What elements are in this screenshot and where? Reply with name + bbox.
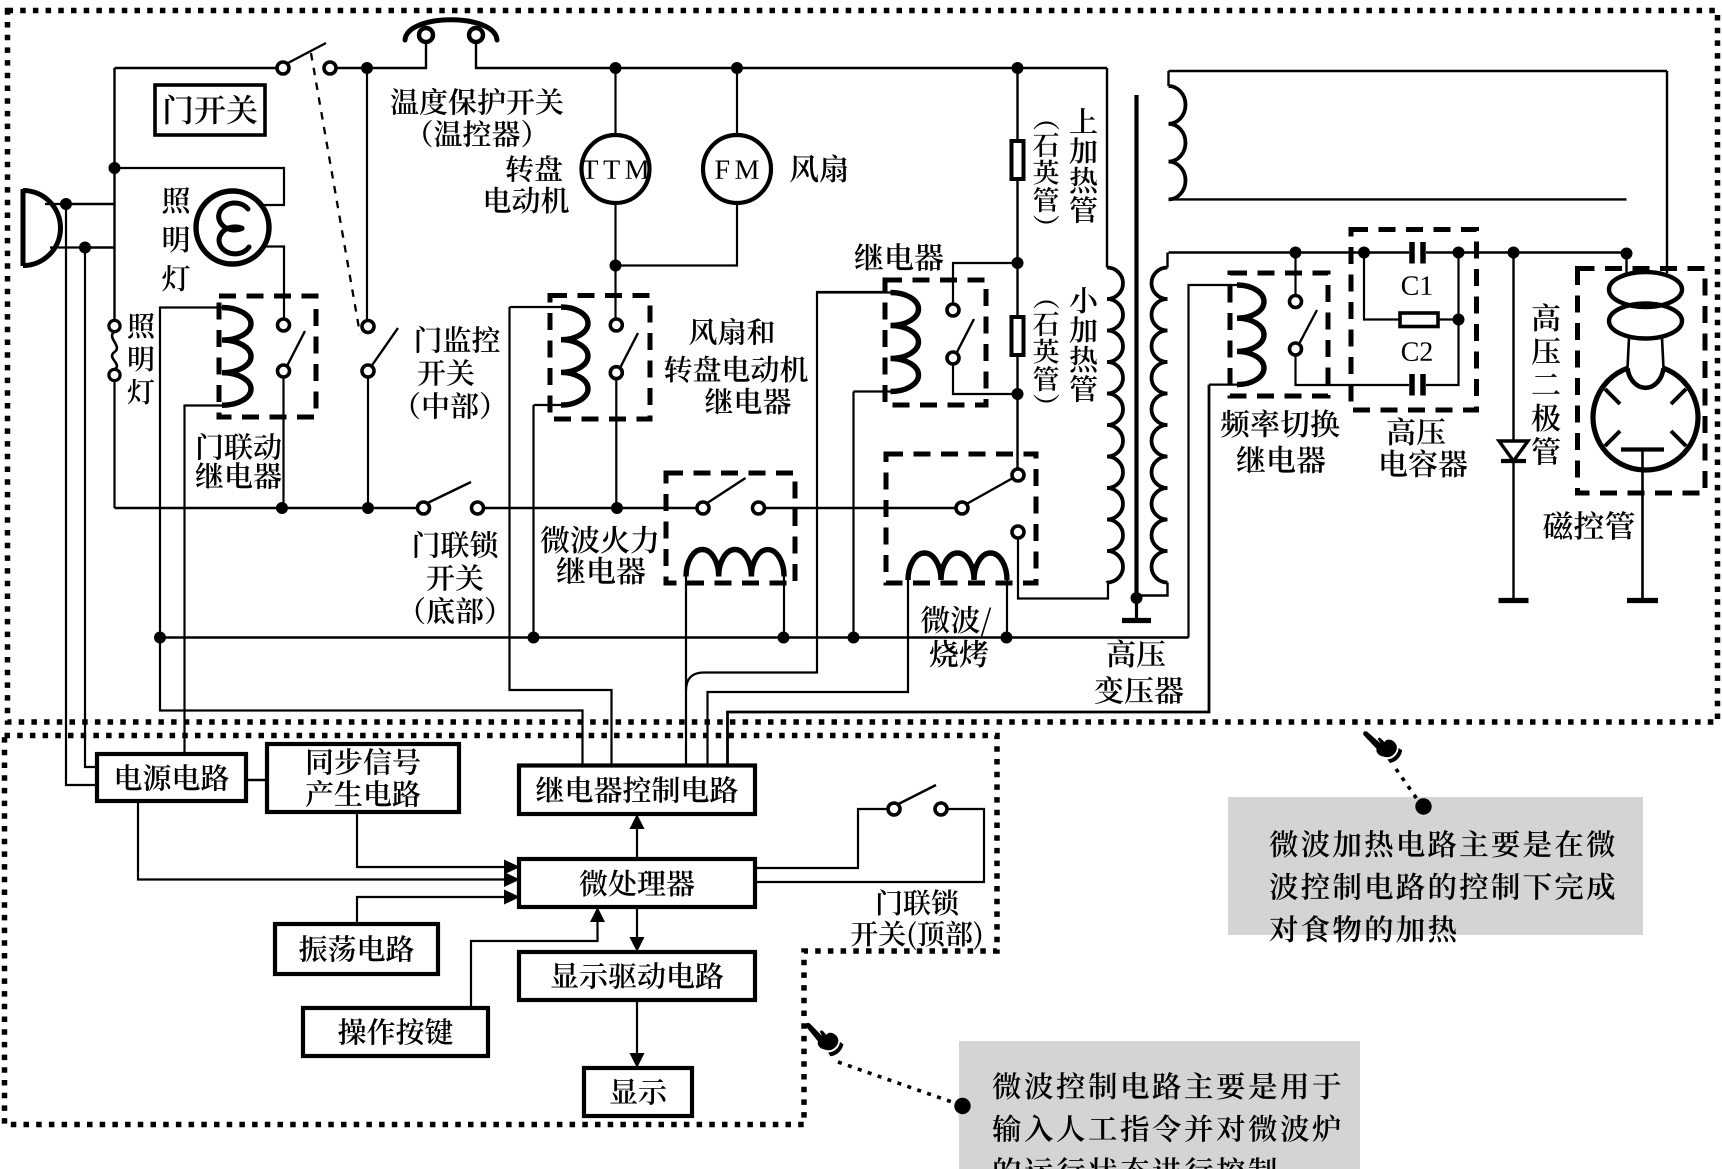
capacitor C1: [1412, 242, 1423, 264]
junction on rail at door-monitor branch: [361, 62, 373, 74]
label: microprocessor: [580, 870, 695, 897]
label: turntable motor line1: [506, 155, 562, 182]
label: door interlock relay line1: [198, 433, 281, 460]
door interlock relay dashed box: [219, 296, 316, 417]
label: sync signal line2: [306, 780, 421, 807]
label: relay control circuit: [536, 776, 738, 803]
HV capacitor dashed box: [1351, 230, 1477, 411]
wire+arrow: sync signal to microprocessor: [357, 812, 520, 875]
pointer hand to heating note: [1360, 722, 1405, 766]
junction coil/bus: [778, 632, 790, 644]
microwave power relay coil: [686, 549, 784, 576]
wire: door relay coil bottom lead drop to power circuit: [183, 405, 185, 756]
label: upper heater tube vertical: [1070, 108, 1097, 223]
small-heater relay dashed box: [885, 280, 986, 405]
wire: freq relay coil bottom drop to relay control: [728, 385, 1210, 766]
microwave/grill relay dashed box: [886, 454, 1036, 583]
junction at x85 on plug bottom lead: [79, 242, 91, 254]
wire: oven lamp top terminal feed: [115, 168, 285, 205]
dotted leader to heating note: [1396, 769, 1417, 799]
operation keys box: [303, 1008, 488, 1056]
label: top interlock switch line1: [878, 889, 958, 915]
label: display driver circuit: [551, 962, 723, 989]
fan/turntable relay contact: [610, 319, 638, 379]
label: oscillator circuit: [299, 935, 414, 962]
wire: fan relay contact to interlock line: [615, 379, 617, 508]
fan and turntable motor relay dashed box: [550, 296, 650, 420]
sync signal generator box: [267, 744, 459, 812]
junction small-heater coil/bus: [848, 632, 860, 644]
wire: between quartz heaters: [1016, 179, 1018, 317]
HV diode ground: [1499, 598, 1529, 603]
HV diode: [1499, 253, 1528, 599]
wire: freq relay contact bottom to C2 line: [1296, 355, 1410, 385]
junction on quartz line (lower tap): [1012, 388, 1024, 400]
label: HV diode vertical: [1532, 303, 1561, 465]
label: magnetron: [1543, 511, 1634, 540]
label: door switch: [165, 94, 257, 124]
wire: relay to grill relay common: [765, 507, 957, 509]
junction of left drop with neutral bus: [154, 632, 166, 644]
label: temperature protection switch line1: [391, 88, 563, 115]
microwave/grill relay contacts: [956, 469, 1024, 538]
frequency relay coil: [1209, 285, 1264, 385]
label: small heater tube vertical: [1070, 287, 1097, 402]
door switch label box: [155, 85, 265, 135]
small-heater relay contact: [947, 304, 974, 364]
wire: long drop to power supply circuit (from x66): [66, 204, 97, 785]
wire: capacitor right leg: [1426, 253, 1459, 386]
wire+arrow: oscillator to microprocessor: [357, 890, 520, 925]
wire: HV bus C1 right plate to magnetron: [1426, 251, 1627, 253]
wire: top right rail to magnetron: [1169, 70, 1668, 72]
wire: interlock line to microwave power relay: [484, 507, 698, 509]
junction at lamp feed tap: [109, 162, 121, 174]
wire: door relay coil top lead drop to relay-control (left): [160, 307, 583, 767]
junction interlock/door-relay: [276, 502, 288, 514]
label: fan/turntable relay line1: [689, 318, 773, 345]
AC power plug: [23, 189, 85, 266]
junction of motor commons: [610, 260, 622, 272]
leader dot (control note): [954, 1098, 970, 1114]
junction HV bus / magnetron filament: [1621, 248, 1633, 260]
wire: microwave relay coil left lead to relay control: [685, 577, 687, 767]
wire: quartz heater feed from rail: [1016, 68, 1018, 141]
wire: lamp branch down to interlock line: [113, 381, 115, 509]
HV transformer primary winding: [1107, 68, 1123, 583]
wire: oven lamp bottom terminal to door relay contact: [264, 247, 284, 320]
junction grill coil/bus: [1001, 632, 1013, 644]
junction resistor/right leg: [1453, 314, 1465, 326]
label: HV transformer line1: [1107, 639, 1165, 667]
wire: HV bus from secondary to C1 left plate: [1169, 251, 1410, 253]
label: sync signal line1: [308, 748, 420, 775]
wire: grill relay lower contact to transformer primary bottom: [1018, 538, 1108, 599]
wire: FM feed from rail: [736, 68, 738, 135]
wire: long drop to power supply circuit (from x85): [85, 248, 97, 768]
door interlock switch (bottom): [418, 482, 484, 514]
magnetron ground: [1627, 598, 1658, 603]
pointer hand to control note: [802, 1014, 846, 1059]
label: door monitor switch line1: [417, 326, 500, 353]
wire: plug bottom lead: [85, 246, 115, 248]
junction HV bus / diode: [1508, 247, 1520, 259]
junction on rail at TTM branch: [610, 62, 622, 74]
wire: plug top lead: [66, 203, 115, 205]
wire: power to sync connector: [246, 779, 267, 781]
power supply circuit box: [97, 754, 246, 801]
junction of coil drop with neutral bus: [528, 632, 540, 644]
wire+arrow: microprocessor to relay control circuit: [630, 814, 645, 859]
label: relay (small heater): [855, 243, 944, 271]
mechanical link (dashed) from door switch to door monitor switch: [311, 53, 360, 334]
door switch (top, open contacts): [277, 43, 336, 74]
HV transformer filament winding: [1169, 71, 1627, 199]
leader dot (heating note): [1415, 798, 1431, 814]
outer dashed border of microwave control circuit block: [5, 736, 998, 1125]
label: door interlock relay line2: [196, 462, 282, 489]
small-heater relay coil: [817, 293, 919, 392]
relay control circuit box: [519, 766, 755, 815]
wire: quartz line down to grill relay contact: [1016, 355, 1018, 469]
label: HV transformer line2: [1095, 676, 1183, 704]
wire: rail from thermal cutout to transformer primary lead: [476, 43, 1107, 68]
wire+arrow: display driver to display: [630, 1000, 645, 1068]
small quartz heater tube (resistor): [1012, 317, 1024, 355]
fan/turntable relay coil: [510, 307, 589, 405]
junction at x66 on plug top lead: [60, 198, 72, 210]
label: lighting lamp (vertical, beside lamp): [162, 187, 189, 291]
door monitor switch (middle): [362, 321, 398, 378]
label: HV capacitor line1: [1387, 417, 1445, 445]
wire: lamp-fuse branch upper: [113, 320, 115, 321]
wire: small-heater coil bottom lead drop to bus: [852, 392, 854, 638]
label: (quartz tube) lower vertical: [1033, 300, 1059, 402]
label: turntable motor line2: [486, 187, 569, 214]
note box (grey): microwave heating circuit: [1228, 797, 1643, 935]
wire: bus riser to frequency relay coil top: [1189, 285, 1251, 638]
HV transformer secondary winding: [1137, 253, 1168, 596]
oscillator circuit box: [275, 924, 438, 974]
junction on rail at quartz-heater branch: [1012, 62, 1024, 74]
wire: small-heater coil top lead drop with curve into relay-control: [686, 292, 887, 691]
label: door monitor switch line2: [418, 359, 474, 386]
label: C2: [1402, 342, 1432, 361]
label: HV capacitor line2: [1381, 450, 1467, 478]
junction interlock/door-monitor: [362, 502, 374, 514]
wire: TTM bottom to common node: [614, 203, 616, 320]
label: door interlock switch line3: [416, 597, 495, 624]
outer dashed border of microwave heating circuit block: [8, 11, 1718, 723]
turntable motor TTM: [582, 135, 650, 203]
magnetron dashed box: [1578, 269, 1706, 494]
wire+arrow: power circuit to microprocessor: [138, 801, 520, 887]
label: temperature protection switch line2: [423, 120, 531, 147]
microprocessor box: [519, 859, 755, 907]
junction HV bus / freq relay contact: [1290, 247, 1302, 259]
wire: microwave relay coil right lead to bus: [783, 577, 785, 638]
label: door interlock switch line1: [415, 531, 498, 558]
door interlock switch (top): [888, 785, 947, 815]
door interlock relay contact: [278, 319, 306, 377]
upper quartz heater tube (resistor): [1012, 141, 1024, 179]
note text: heating circuit: [1270, 830, 1615, 942]
label: microwave power relay line2: [557, 557, 646, 585]
wire: door monitor switch to interlock line: [367, 377, 369, 508]
microwave/grill relay coil: [908, 553, 1007, 580]
wire: top interlock switch return (lower): [755, 809, 984, 882]
frequency relay contact: [1290, 296, 1318, 356]
wire: microprocessor to top interlock switch (upper): [755, 809, 888, 868]
wire: fan relay coil bottom lead drop: [532, 405, 534, 638]
junction on quartz line (upper tap): [1012, 257, 1024, 269]
wire: small-heater relay contact top to quartz line: [953, 263, 1018, 304]
label: display: [610, 1078, 666, 1105]
label: top interlock switch line2: [851, 921, 981, 950]
label: microwave power relay line1: [541, 526, 658, 554]
note box (grey): microwave control circuit: [959, 1041, 1360, 1169]
microwave power relay contact: [697, 478, 765, 514]
wire: small-heater relay contact bottom to quartz line: [953, 364, 1018, 394]
thermal protection switch (temperature cutout): [405, 20, 497, 42]
oven lamp (lighting lamp): [196, 191, 269, 264]
HV transformer core: [1134, 95, 1138, 598]
wire: door interlock switch line (bottom): [115, 507, 418, 509]
wire: rail between door switch and thermal cutout: [336, 43, 426, 68]
label: fan/turntable relay line3: [705, 388, 791, 415]
frequency switching relay dashed box: [1230, 273, 1328, 396]
wire: plug top conductor riser: [113, 68, 115, 321]
fan motor FM: [703, 135, 771, 203]
label: lighting lamp (vertical, small branch): [128, 313, 154, 405]
wire: TTM feed from rail: [614, 68, 616, 135]
junction HV bus / C-box left: [1358, 247, 1370, 259]
wire: phase rail from plug riser to thermal switch: [115, 67, 283, 69]
label: frequency relay line2: [1237, 446, 1326, 474]
label: microwave/grill line1: [921, 606, 991, 637]
wire: door relay contact to interlock line: [282, 377, 284, 508]
wire: FM bottom to common node: [616, 203, 738, 266]
note text: control circuit: [992, 1072, 1340, 1169]
label: frequency relay line1: [1221, 409, 1340, 437]
wire: grill relay coil right lead to bus: [1006, 580, 1008, 638]
lamp element in supply branch (second lighting lamp): [109, 320, 120, 380]
wire: neutral bus: [160, 636, 1189, 638]
junction transformer core/secondary ground: [1131, 592, 1143, 604]
label: door interlock switch line2: [427, 564, 483, 591]
wire: grill relay coil left lead to relay control: [708, 580, 909, 766]
label: (quartz tube) upper vertical: [1033, 121, 1059, 223]
wire+arrow: microprocessor to display driver: [630, 907, 645, 952]
label: door monitor switch line3: [411, 392, 490, 419]
wire: fan relay coil top lead drop: [510, 307, 612, 766]
label: operation keys: [338, 1018, 453, 1045]
magnetron filament and tube: [1593, 71, 1698, 598]
door interlock relay coil: [160, 308, 251, 406]
wire+arrow: operation keys to microprocessor: [471, 907, 605, 1008]
display driver circuit box: [519, 952, 755, 1000]
wire: freq relay contact top to HV bus: [1294, 253, 1296, 296]
junction interlock/fan-relay: [611, 502, 623, 514]
bleeder resistor: [1364, 253, 1459, 327]
label: fan/turntable relay line2: [665, 356, 808, 383]
label: power supply circuit: [117, 764, 229, 791]
label: fan: [790, 154, 847, 182]
dotted leader to control note: [838, 1062, 952, 1102]
label: C1: [1402, 276, 1432, 295]
microwave power relay dashed box: [666, 473, 795, 583]
junction HV bus / C-box right: [1453, 247, 1465, 259]
transformer core ground: [1122, 598, 1151, 621]
capacitor C2: [1412, 374, 1423, 396]
display box: [584, 1068, 692, 1116]
label: microwave/grill line2: [930, 640, 988, 668]
junction on rail at FM branch: [731, 62, 743, 74]
wire: rail to door monitor switch: [366, 68, 368, 321]
